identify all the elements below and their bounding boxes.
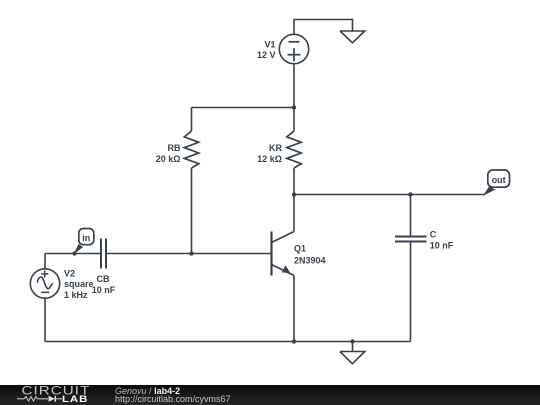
- wire: capacitor C top lead: [410, 195, 412, 237]
- node A junction dot (V1/RB/KR): [292, 105, 296, 109]
- svg-text:12 kΩ: 12 kΩ: [257, 154, 282, 164]
- wire: V2 bottom lead down to bottom rail: [44, 298, 46, 342]
- svg-text:KR: KR: [269, 143, 282, 153]
- wire: collector vertical into Q1: [293, 195, 295, 232]
- ground GND top-right: [340, 31, 365, 43]
- logo CircuitLab: [0, 385, 110, 405]
- node RB/input junction dot: [189, 251, 193, 255]
- svg-text:V1: V1: [264, 39, 275, 49]
- node cap C top junction dot: [408, 192, 412, 196]
- wire: V1 bottom terminal down to node A: [293, 64, 295, 108]
- svg-text:square: square: [64, 279, 94, 289]
- svg-text:2N3904: 2N3904: [294, 255, 326, 265]
- svg-text:12 V: 12 V: [257, 50, 276, 60]
- svg-text:Q1: Q1: [294, 244, 306, 254]
- wire: input net from V2 to CB left plate: [45, 253, 101, 255]
- wire: KR top lead from node A: [293, 108, 295, 132]
- svg-text:10 nF: 10 nF: [92, 285, 116, 295]
- wire: V2 top lead up to input net: [44, 254, 46, 270]
- footer title line: [115, 387, 180, 396]
- voltage source V2: [30, 269, 59, 298]
- node collector junction dot: [292, 192, 296, 196]
- svg-text:RB: RB: [168, 143, 181, 153]
- svg-text:CB: CB: [97, 274, 110, 284]
- wire: collector node horizontal to out flag tail: [294, 194, 485, 196]
- resistor RB: [184, 131, 198, 168]
- svg-text:in: in: [82, 233, 90, 243]
- capacitor CB: [101, 239, 106, 269]
- wire: RB top lead: [191, 108, 193, 132]
- svg-text:20 kΩ: 20 kΩ: [156, 154, 181, 164]
- flag in: [74, 229, 94, 255]
- svg-text:V2: V2: [64, 268, 75, 278]
- capacitor C: [395, 237, 427, 242]
- wire: KR bottom lead to collector node: [293, 168, 295, 195]
- wire: node A horizontal over to RB: [192, 107, 295, 109]
- ground GND bottom: [340, 342, 365, 364]
- transistor Q1: [272, 232, 295, 276]
- svg-text:10 nF: 10 nF: [430, 240, 454, 250]
- svg-text:1 kHz: 1 kHz: [64, 290, 88, 300]
- wire: RB bottom lead down to input net: [191, 168, 193, 254]
- resistor KR: [287, 131, 301, 168]
- flag out: [483, 170, 510, 196]
- voltage source V1: [279, 34, 308, 63]
- footer bar: [0, 385, 540, 405]
- wire: bottom ground rail: [45, 341, 411, 343]
- wire: capacitor C bottom lead: [410, 242, 412, 342]
- wire: V1 positive terminal up and over to top ground: [294, 20, 353, 35]
- svg-text:C: C: [430, 230, 437, 240]
- node in junction dot: [72, 251, 76, 255]
- node ground/bottom-rail junction dot: [350, 339, 354, 343]
- wire: CB right plate to Q1 base: [106, 253, 272, 255]
- node emitter/bottom-rail junction dot: [292, 339, 296, 343]
- wire: Q1 emitter vertical down to bottom rail: [293, 276, 295, 342]
- svg-text:out: out: [492, 175, 506, 185]
- footer url line: [115, 395, 231, 404]
- svg-text:LAB: LAB: [62, 395, 88, 405]
